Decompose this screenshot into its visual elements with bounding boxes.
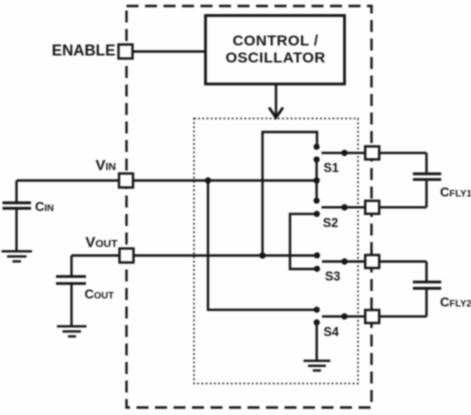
svg-text:S4: S4 [324, 325, 339, 339]
wire VOUT rail [72, 254, 318, 256]
ground (CIN) [2, 251, 33, 261]
node VIN to switch chain junction [313, 177, 319, 183]
arrow control block to switch matrix [275, 85, 277, 116]
switch S4 arm wire to CFLY2- [322, 315, 427, 317]
switch-matrix dotted box [194, 119, 358, 384]
capacitor CFLY1 [413, 153, 441, 207]
svg-text:S1: S1 [324, 161, 339, 175]
switch S1 arm wire to CFLY1+ [322, 152, 427, 154]
svg-text:S3: S3 [325, 270, 340, 284]
pin CFLY2+ [365, 255, 379, 268]
capacitor COUT [56, 256, 86, 326]
ground (COUT) [57, 326, 87, 336]
svg-text:CONTROL /: CONTROL / [233, 33, 319, 50]
switch S3 arm wire to CFLY2+ [322, 260, 427, 262]
pin VIN [119, 174, 133, 188]
node S4 arm junction [341, 313, 347, 319]
pin CFLY1- [365, 201, 379, 214]
node VOUT branch junction [259, 252, 265, 258]
wire VOUT branch up to S1 top [263, 132, 318, 256]
capacitor CIN [3, 181, 32, 251]
pin ENABLE [119, 45, 133, 59]
node S3 arm junction [341, 258, 347, 264]
capacitor CFLY2 [413, 262, 441, 317]
node VIN branch junction [205, 177, 211, 183]
switch S2 contacts [314, 198, 320, 204]
svg-text:ENABLE: ENABLE [52, 43, 116, 60]
pin CFLY2- [365, 310, 379, 323]
wire S1 bottom to S2 top [315, 160, 317, 201]
switch S3 contacts [314, 252, 320, 258]
wire S4 bottom to ground [316, 322, 318, 360]
svg-text:OSCILLATOR: OSCILLATOR [225, 50, 325, 67]
pin CFLY1+ [365, 146, 379, 159]
switch S2 arm wire to CFLY1- [322, 206, 427, 208]
wire VIN rail [17, 179, 317, 181]
wire VIN branch down to S4 [208, 181, 317, 310]
ground (S4) [304, 361, 331, 371]
svg-text:S2: S2 [323, 216, 338, 230]
node S2 arm junction [341, 204, 347, 210]
switch S1 contacts [314, 144, 320, 150]
node S1 arm junction [341, 150, 347, 156]
control/oscillator block U1 [206, 16, 345, 85]
wire S2 bottom to S3 bottom [290, 214, 317, 269]
IC boundary dashed box [127, 6, 372, 408]
switch S4 contacts [314, 307, 320, 313]
wire enable to control block [134, 50, 206, 52]
pin VOUT [120, 249, 134, 263]
